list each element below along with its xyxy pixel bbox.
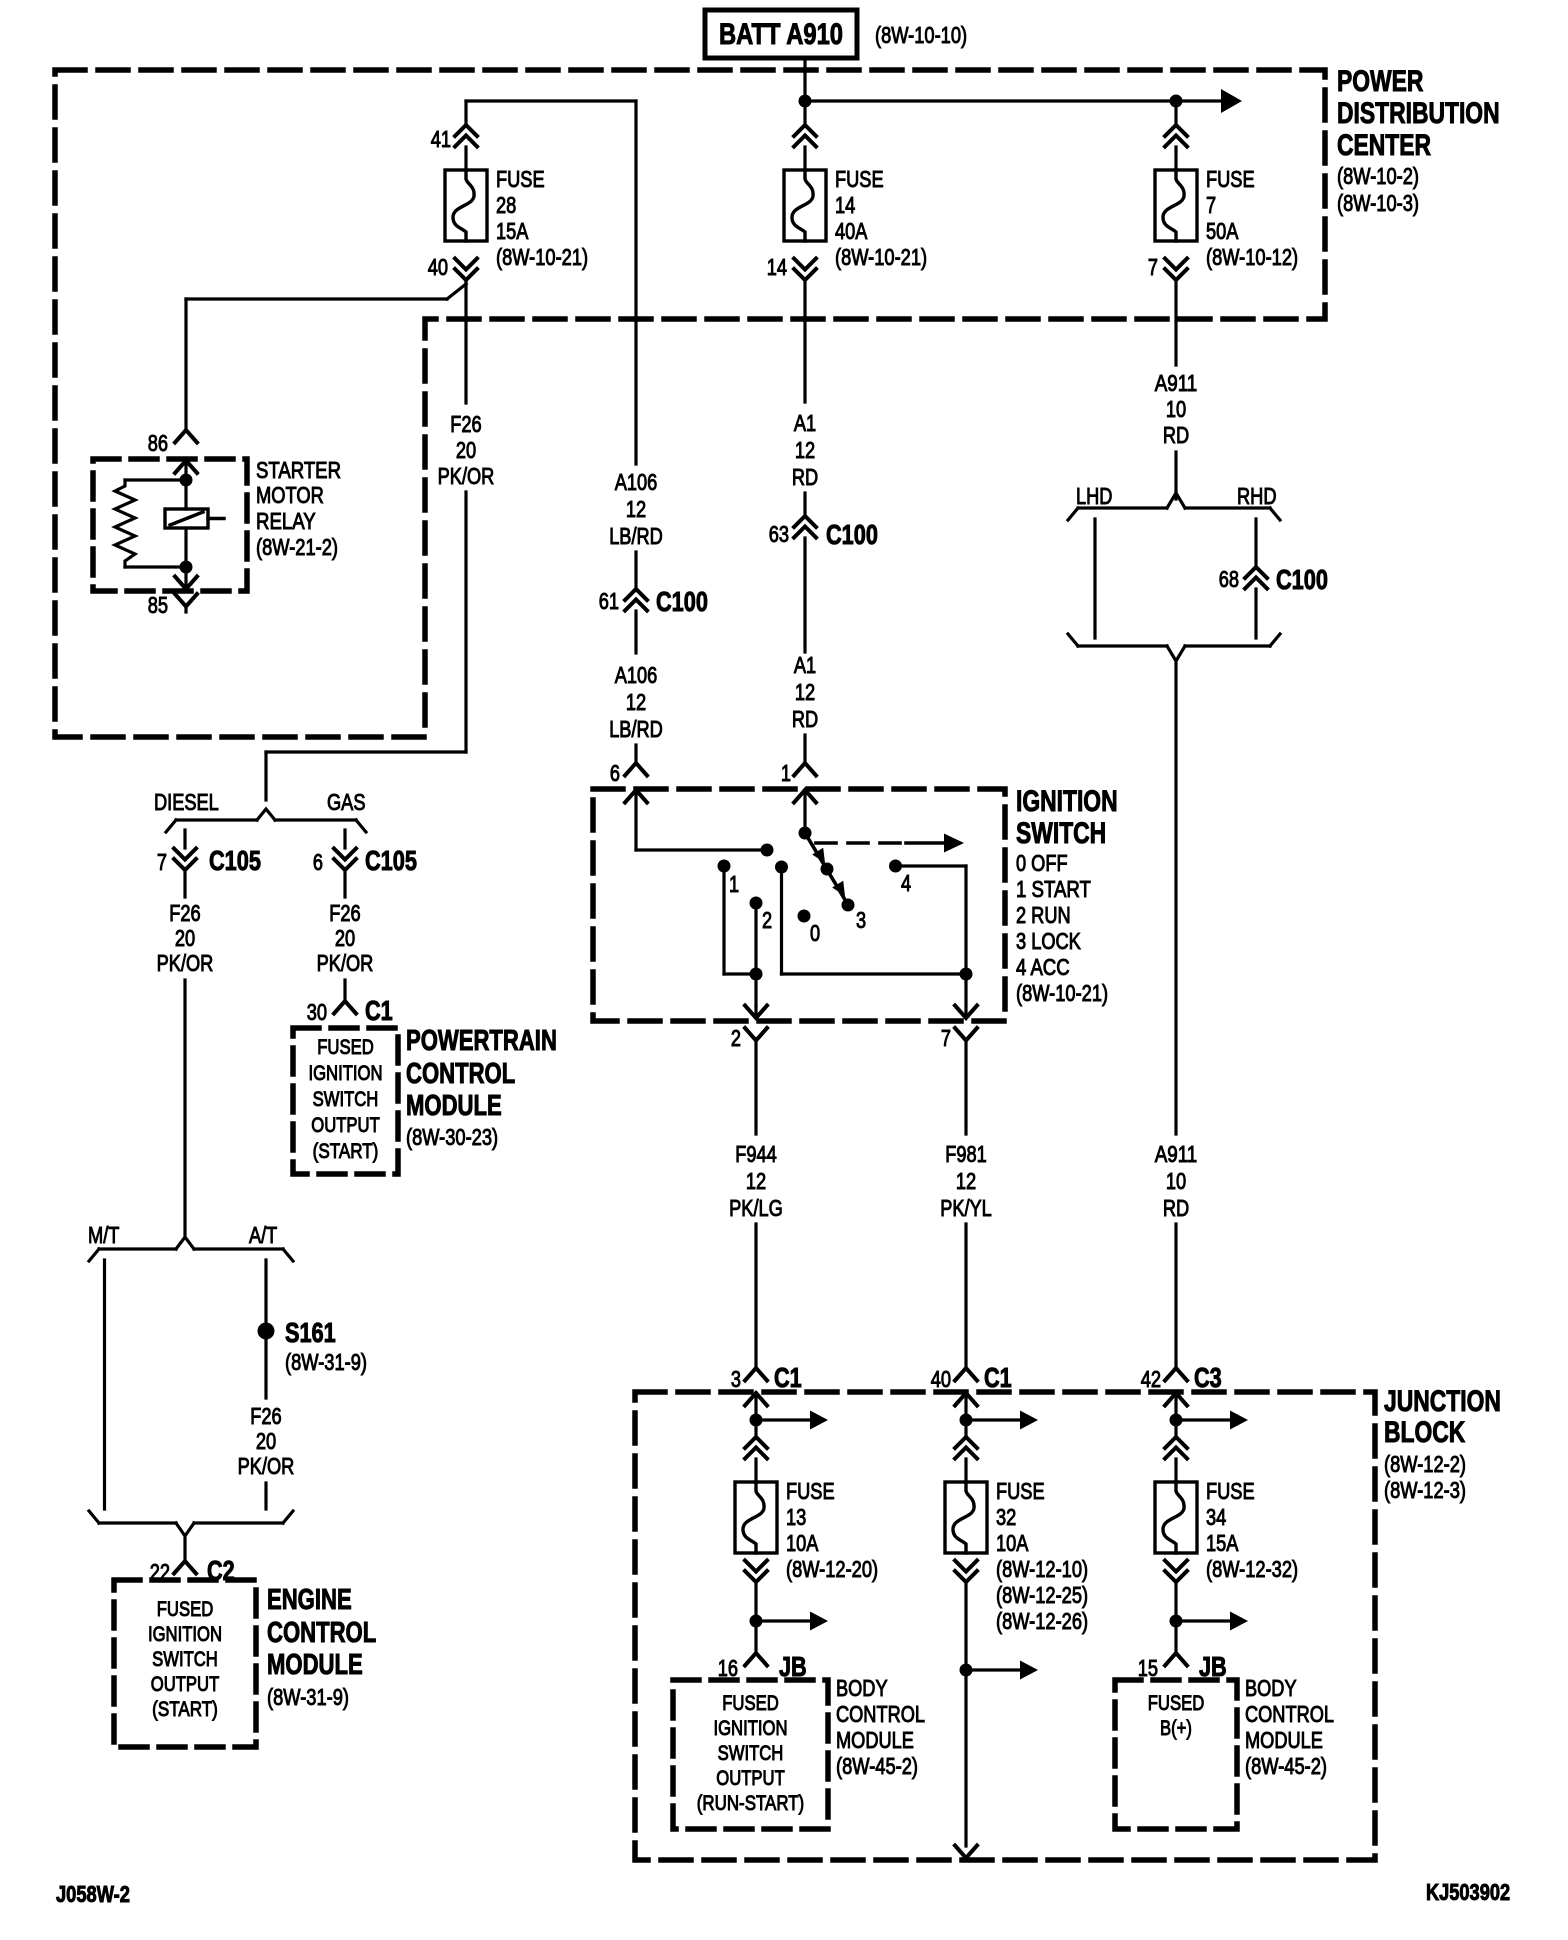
wire	[634, 611, 637, 653]
svg-text:(8W-12-3): (8W-12-3)	[1384, 1477, 1466, 1503]
branch arrow fuse 32 output	[966, 1661, 1038, 1680]
wire	[1174, 1459, 1177, 1482]
branch arrow fuse 34 feed	[1176, 1411, 1248, 1430]
svg-text:SWITCH: SWITCH	[1016, 817, 1106, 850]
svg-text:JUNCTION: JUNCTION	[1384, 1385, 1501, 1418]
LHD/RHD merge bracket	[1068, 634, 1280, 661]
node contact 1	[718, 860, 740, 898]
wire fuse 32 output down	[955, 1670, 977, 1858]
wire A106 from bus	[634, 101, 637, 464]
svg-text:PK/YL: PK/YL	[940, 1195, 992, 1221]
svg-text:4: 4	[901, 870, 911, 896]
body control module box (run-start)	[673, 1680, 828, 1829]
svg-text:40A: 40A	[835, 218, 868, 244]
connector chevrons below fuse 34	[1165, 1561, 1187, 1583]
svg-text:(8W-10-3): (8W-10-3)	[1337, 190, 1419, 216]
svg-text:7: 7	[1206, 192, 1216, 218]
junction block dashed box	[635, 1392, 1375, 1860]
pin 1 male half inside switch	[794, 790, 816, 832]
svg-text:6: 6	[610, 760, 620, 786]
svg-text:12: 12	[626, 496, 646, 522]
wire RHD branch lower	[1254, 589, 1257, 638]
wire	[343, 870, 346, 897]
svg-text:14: 14	[835, 192, 855, 218]
wire	[754, 1459, 757, 1482]
svg-text:OUTPUT: OUTPUT	[151, 1672, 220, 1696]
wire GAS branch	[343, 830, 346, 848]
wire A911	[1174, 280, 1177, 365]
svg-text:CENTER: CENTER	[1337, 129, 1431, 162]
svg-text:MODULE: MODULE	[267, 1649, 363, 1681]
bus wire segment to fuse 28 / A106	[466, 99, 636, 102]
svg-text:LHD: LHD	[1076, 483, 1112, 509]
svg-text:KJ503902: KJ503902	[1426, 1879, 1510, 1905]
connector 42 C3	[1141, 1362, 1222, 1393]
wire	[803, 538, 806, 652]
power distribution center dashed boundary	[55, 70, 1325, 737]
M/T A/T split bracket	[89, 1237, 293, 1261]
wire F981 lower	[964, 1224, 967, 1368]
connector 6 C105	[313, 845, 417, 876]
node wiper middle	[821, 863, 834, 876]
junction block pin 42 male half	[1165, 1393, 1187, 1420]
fuse F7 50A	[1155, 166, 1298, 270]
svg-text:(8W-12-32): (8W-12-32)	[1206, 1556, 1298, 1582]
svg-text:1: 1	[729, 871, 739, 897]
svg-text:(8W-12-2): (8W-12-2)	[1384, 1451, 1466, 1477]
relay pin 86 male half	[175, 461, 197, 481]
wire pin 2 exit	[745, 974, 767, 1018]
svg-text:RELAY: RELAY	[256, 508, 316, 534]
wire label A1 12 RD (upper)	[792, 410, 818, 490]
svg-text:A/T: A/T	[249, 1222, 277, 1248]
svg-text:20: 20	[175, 925, 195, 951]
node pin 7 junction	[960, 968, 973, 981]
label RHD	[1237, 483, 1277, 509]
svg-text:C105: C105	[209, 845, 261, 876]
splice S161	[258, 1317, 368, 1375]
connector 22 C2	[150, 1555, 235, 1586]
svg-text:34: 34	[1206, 1504, 1226, 1530]
svg-text:(8W-10-21): (8W-10-21)	[835, 244, 927, 270]
svg-text:OUTPUT: OUTPUT	[311, 1113, 380, 1137]
wire to pin 15	[1174, 1621, 1177, 1653]
svg-text:(8W-10-2): (8W-10-2)	[1337, 163, 1419, 189]
svg-text:A106: A106	[615, 469, 658, 495]
label LHD	[1076, 483, 1112, 509]
svg-text:(RUN-START): (RUN-START)	[697, 1791, 804, 1815]
svg-text:IGNITION: IGNITION	[148, 1622, 222, 1646]
svg-text:BODY: BODY	[836, 1675, 888, 1701]
node relay coil top	[180, 474, 193, 487]
svg-text:FUSED: FUSED	[317, 1035, 374, 1059]
svg-text:40: 40	[428, 254, 448, 280]
connector chevrons above fuse 14	[794, 125, 816, 147]
svg-text:12: 12	[746, 1168, 766, 1194]
svg-text:MODULE: MODULE	[1245, 1727, 1323, 1753]
wire A/T branch lower	[264, 1483, 267, 1509]
svg-text:4 ACC: 4 ACC	[1016, 954, 1070, 980]
svg-text:RD: RD	[1163, 422, 1189, 448]
connector pin 7 below switch	[941, 1025, 977, 1134]
connector 61 C100	[599, 586, 708, 617]
svg-text:(8W-45-2): (8W-45-2)	[836, 1753, 918, 1779]
svg-text:50A: 50A	[1206, 218, 1239, 244]
svg-text:POWER: POWER	[1337, 65, 1423, 98]
svg-text:(8W-12-10): (8W-12-10)	[996, 1556, 1088, 1582]
svg-text:F981: F981	[945, 1141, 987, 1167]
node contact 0	[798, 910, 821, 947]
svg-text:2 RUN: 2 RUN	[1016, 902, 1071, 928]
svg-text:F26: F26	[329, 900, 360, 926]
svg-text:(8W-12-25): (8W-12-25)	[996, 1582, 1088, 1608]
wire	[464, 147, 467, 170]
wire	[634, 552, 637, 589]
wire label F26 20 PK/OR (diesel)	[157, 900, 214, 976]
wire M/T branch	[103, 1260, 106, 1509]
wire label F981 12 PK/YL	[940, 1141, 992, 1221]
wire contact 1 to pin 2 rail	[724, 866, 756, 974]
svg-text:FUSE: FUSE	[835, 166, 884, 192]
connector chevrons below fuse 13	[745, 1561, 767, 1583]
svg-text:FUSE: FUSE	[1206, 166, 1255, 192]
connector pin 1 ignition switch	[781, 760, 816, 786]
svg-text:12: 12	[626, 689, 646, 715]
STARTER MOTOR RELAY label	[256, 457, 341, 560]
connector pin 7	[1148, 254, 1187, 280]
node contact from pin 6	[761, 844, 774, 857]
svg-text:BATT A910: BATT A910	[719, 18, 843, 51]
svg-text:14: 14	[767, 254, 787, 280]
wire label F944 12 PK/LG	[729, 1141, 783, 1221]
node pin 2 junction	[750, 968, 763, 981]
starter motor relay dashed box	[93, 459, 247, 591]
svg-text:15A: 15A	[496, 218, 529, 244]
connector chevrons above fuse 32	[955, 1420, 977, 1459]
svg-text:20: 20	[335, 925, 355, 951]
wire contact 4 to pin 7	[896, 866, 967, 974]
svg-text:IGNITION: IGNITION	[308, 1061, 382, 1085]
node relay coil bottom	[180, 561, 193, 574]
connector chevrons above fuse 34	[1165, 1420, 1187, 1459]
wire pin 7 exit	[955, 974, 977, 1018]
connector 63 C100	[769, 516, 878, 550]
svg-text:C100: C100	[826, 519, 878, 550]
reference (8W-10-10)	[875, 22, 967, 48]
JUNCTION BLOCK label	[1384, 1385, 1501, 1503]
svg-text:86: 86	[148, 430, 168, 456]
svg-text:CONTROL: CONTROL	[406, 1058, 515, 1090]
wire	[1174, 1582, 1177, 1621]
svg-text:M/T: M/T	[88, 1222, 119, 1248]
ignition switch dashed box	[593, 789, 1005, 1021]
node fuse 13 feed tap	[750, 1414, 763, 1427]
svg-text:(8W-21-2): (8W-21-2)	[256, 534, 338, 560]
svg-text:STARTER: STARTER	[256, 457, 341, 483]
svg-text:(START): (START)	[152, 1697, 218, 1721]
wire fuse 14 top	[803, 101, 806, 125]
connector 15 JB	[1138, 1651, 1227, 1682]
wire	[964, 1459, 967, 1482]
svg-text:POWERTRAIN: POWERTRAIN	[406, 1025, 557, 1057]
svg-text:32: 32	[996, 1504, 1016, 1530]
connector chevrons above fuse 13	[745, 1420, 767, 1459]
connector 7 C105	[157, 845, 261, 876]
ENGINE CONTROL MODULE label	[267, 1584, 376, 1710]
svg-text:10: 10	[1166, 396, 1186, 422]
engine control module dashed box	[114, 1580, 256, 1747]
node fuse 32 feed tap	[960, 1414, 973, 1427]
svg-text:2: 2	[731, 1025, 741, 1051]
svg-text:0: 0	[810, 920, 820, 946]
connector 16 JB	[718, 1651, 807, 1682]
svg-text:28: 28	[496, 192, 516, 218]
wire A911 lower	[1174, 1224, 1177, 1368]
connector chevrons above fuse 7	[1165, 125, 1187, 147]
wire label F26 20 PK/OR	[438, 411, 495, 489]
svg-text:LB/RD: LB/RD	[609, 523, 663, 549]
BODY CONTROL MODULE label (left)	[836, 1675, 925, 1779]
connector pin 6 ignition switch	[610, 760, 647, 786]
node fuse 13 output tap	[750, 1615, 763, 1628]
svg-text:PK/LG: PK/LG	[729, 1195, 783, 1221]
dashed rotation arrow	[816, 834, 964, 853]
svg-text:S161: S161	[285, 1317, 336, 1348]
node battery bus junction	[799, 95, 812, 108]
svg-text:A1: A1	[794, 652, 816, 678]
wire contact 2 down	[754, 903, 757, 974]
node contact 4	[889, 860, 911, 897]
svg-text:OUTPUT: OUTPUT	[716, 1766, 785, 1790]
svg-text:MOTOR: MOTOR	[256, 482, 324, 508]
wire	[634, 745, 637, 763]
svg-text:7: 7	[1148, 254, 1158, 280]
fuse F13 10A	[735, 1478, 878, 1582]
relay pin 85 exit	[148, 567, 197, 618]
wire DIESEL branch	[183, 830, 186, 848]
wire fuse 7 top	[1174, 101, 1177, 125]
wire F944 lower	[754, 1224, 757, 1368]
svg-text:B(+): B(+)	[1160, 1716, 1192, 1740]
svg-text:F26: F26	[250, 1403, 281, 1429]
svg-text:FUSED: FUSED	[157, 1597, 214, 1621]
svg-text:10A: 10A	[786, 1530, 819, 1556]
node contact 3	[842, 899, 867, 934]
svg-text:15A: 15A	[1206, 1530, 1239, 1556]
svg-text:(8W-10-12): (8W-10-12)	[1206, 244, 1298, 270]
svg-text:FUSE: FUSE	[496, 166, 545, 192]
svg-text:(START): (START)	[313, 1139, 379, 1163]
svg-text:63: 63	[769, 521, 789, 547]
svg-text:(8W-10-21): (8W-10-21)	[496, 244, 588, 270]
wire start contact to pin 7 rail	[782, 867, 967, 974]
node fuse 34 feed tap	[1170, 1414, 1183, 1427]
svg-text:CONTROL: CONTROL	[267, 1617, 376, 1649]
svg-text:DIESEL: DIESEL	[154, 789, 219, 815]
DIESEL/GAS split bracket	[166, 809, 366, 832]
svg-text:BODY: BODY	[1245, 1675, 1297, 1701]
svg-text:IGNITION: IGNITION	[713, 1716, 787, 1740]
svg-text:FUSE: FUSE	[996, 1478, 1045, 1504]
wire LHD branch	[1093, 519, 1096, 638]
svg-text:2: 2	[762, 907, 772, 933]
sheet number J058W-2	[56, 1881, 130, 1907]
connector pin 40	[428, 254, 477, 280]
wire label F26 20 PK/OR (gas)	[317, 900, 374, 976]
wire RHD branch upper	[1254, 519, 1257, 567]
svg-text:F26: F26	[169, 900, 200, 926]
svg-text:C1: C1	[774, 1362, 802, 1393]
svg-text:42: 42	[1141, 1366, 1161, 1392]
wire label A106 12 LB/RD (lower)	[609, 662, 663, 742]
svg-text:F944: F944	[735, 1141, 777, 1167]
node contact 2	[750, 897, 773, 934]
svg-text:(8W-12-20): (8W-12-20)	[786, 1556, 878, 1582]
label DIESEL	[154, 789, 219, 815]
branch arrow fuse 34 output	[1176, 1612, 1248, 1631]
svg-text:PK/OR: PK/OR	[238, 1453, 295, 1479]
svg-text:(8W-30-23): (8W-30-23)	[406, 1124, 498, 1150]
connector pin 41	[431, 125, 477, 152]
svg-text:6: 6	[313, 849, 323, 875]
svg-text:J058W-2: J058W-2	[56, 1881, 130, 1907]
svg-text:(8W-31-9): (8W-31-9)	[267, 1684, 349, 1710]
connector 40 C1	[931, 1362, 1012, 1393]
node fuse 7 tap	[1170, 95, 1183, 108]
branch arrow fuse 32 feed	[966, 1411, 1038, 1430]
wire diesel branch long	[183, 980, 186, 1237]
svg-text:F26: F26	[450, 411, 481, 437]
node fuse 32 output tap	[960, 1664, 973, 1677]
svg-text:10: 10	[1166, 1168, 1186, 1194]
svg-text:SWITCH: SWITCH	[152, 1647, 218, 1671]
svg-text:FUSED: FUSED	[1148, 1691, 1205, 1715]
wire	[1174, 147, 1177, 170]
switch wiper with arrows	[805, 833, 847, 903]
label M/T	[88, 1222, 119, 1248]
svg-text:40: 40	[931, 1366, 951, 1392]
bus wire with arrow to right	[805, 89, 1242, 113]
body control module box (B+)	[1115, 1680, 1237, 1829]
svg-text:(8W-10-21): (8W-10-21)	[1016, 980, 1108, 1006]
svg-text:(8W-10-10): (8W-10-10)	[875, 22, 967, 48]
node rotor feed	[799, 827, 812, 840]
wire fuse 28 top	[464, 101, 467, 125]
svg-text:7: 7	[157, 849, 167, 875]
wire label A1 12 RD (lower)	[792, 652, 818, 732]
svg-text:C105: C105	[365, 845, 417, 876]
wire	[183, 870, 186, 897]
svg-text:61: 61	[599, 588, 619, 614]
junction block pin 3 male half	[745, 1393, 767, 1420]
svg-text:C1: C1	[365, 995, 393, 1026]
junction block pin 40 male half	[955, 1393, 977, 1420]
svg-text:A911: A911	[1155, 1141, 1198, 1167]
node contact start feed	[775, 861, 788, 874]
svg-text:GAS: GAS	[327, 789, 366, 815]
wire	[964, 1582, 967, 1670]
svg-text:IGNITION: IGNITION	[1016, 785, 1118, 818]
svg-text:1 START: 1 START	[1016, 876, 1091, 902]
svg-text:FUSE: FUSE	[786, 1478, 835, 1504]
fuse F32 10A	[945, 1478, 1088, 1634]
LHD/RHD split bracket	[1068, 493, 1280, 520]
BODY CONTROL MODULE label (right)	[1245, 1675, 1334, 1779]
svg-text:MODULE: MODULE	[406, 1090, 502, 1122]
fuse F34 15A	[1155, 1478, 1298, 1582]
svg-text:PK/OR: PK/OR	[438, 463, 495, 489]
svg-text:PK/OR: PK/OR	[157, 950, 214, 976]
svg-text:20: 20	[456, 437, 476, 463]
wire	[803, 493, 806, 516]
connector chevrons below fuse 32	[955, 1561, 977, 1583]
svg-text:RHD: RHD	[1237, 483, 1277, 509]
wire gas branch	[343, 980, 346, 1001]
wire to pin 16	[754, 1621, 757, 1653]
wire label A911 10 RD (lower)	[1155, 1141, 1198, 1221]
sheet number KJ503902	[1426, 1879, 1510, 1905]
connector 68 C100	[1219, 564, 1328, 595]
svg-text:30: 30	[307, 999, 327, 1025]
svg-text:C3: C3	[1194, 1362, 1222, 1393]
svg-text:68: 68	[1219, 566, 1239, 592]
svg-text:3 LOCK: 3 LOCK	[1016, 928, 1081, 954]
svg-text:85: 85	[148, 592, 168, 618]
wire A1	[803, 280, 806, 402]
branch arrow fuse 13 output	[756, 1612, 828, 1631]
svg-text:A911: A911	[1155, 370, 1198, 396]
label GAS	[327, 789, 366, 815]
connector pin 2 below switch	[731, 1025, 767, 1134]
pin 6 male half inside switch	[625, 790, 647, 850]
svg-text:16: 16	[718, 1655, 738, 1681]
svg-text:20: 20	[256, 1428, 276, 1454]
svg-text:ENGINE: ENGINE	[267, 1584, 352, 1616]
node fuse 34 output tap	[1170, 1615, 1183, 1628]
svg-text:CONTROL: CONTROL	[1245, 1701, 1334, 1727]
svg-text:FUSE: FUSE	[1206, 1478, 1255, 1504]
connector 3 C1	[731, 1362, 802, 1393]
wire	[264, 1331, 267, 1398]
wire F26 continues to DIESEL/GAS split	[266, 492, 466, 800]
svg-text:SWITCH: SWITCH	[718, 1741, 784, 1765]
wire pin6 to contact	[636, 848, 767, 851]
connector pin 86	[148, 430, 197, 456]
svg-text:12: 12	[956, 1168, 976, 1194]
relay suppression resistor	[115, 480, 186, 567]
svg-text:C100: C100	[656, 586, 708, 617]
POWERTRAIN CONTROL MODULE label	[406, 1025, 557, 1150]
wire label F26 20 PK/OR (A/T)	[238, 1403, 295, 1479]
svg-text:C100: C100	[1276, 564, 1328, 595]
svg-text:LB/RD: LB/RD	[609, 716, 663, 742]
svg-text:CONTROL: CONTROL	[836, 1701, 925, 1727]
svg-text:A1: A1	[794, 410, 816, 436]
svg-text:RD: RD	[792, 706, 818, 732]
POWER DISTRIBUTION CENTER label	[1337, 65, 1500, 216]
powertrain control module dashed box	[293, 1028, 398, 1174]
svg-text:12: 12	[795, 679, 815, 705]
svg-text:DISTRIBUTION: DISTRIBUTION	[1337, 97, 1500, 130]
svg-text:RD: RD	[1163, 1195, 1189, 1221]
connector 30 C1	[307, 995, 393, 1026]
wire label A911 10 RD (upper)	[1155, 370, 1198, 448]
wire	[803, 147, 806, 170]
fuse F28 15A	[445, 166, 588, 270]
svg-text:SWITCH: SWITCH	[313, 1087, 379, 1111]
svg-text:(8W-45-2): (8W-45-2)	[1245, 1753, 1327, 1779]
svg-text:3: 3	[856, 907, 866, 933]
